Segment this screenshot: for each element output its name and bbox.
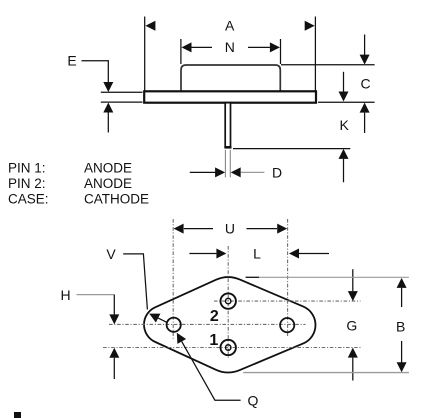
dim N stem right xyxy=(248,46,270,48)
svg-text:G: G xyxy=(346,318,357,334)
dim N extension line left xyxy=(180,39,182,64)
svg-text:H: H xyxy=(60,287,70,303)
svg-text:U: U xyxy=(225,220,235,236)
dim B stem lower xyxy=(401,341,403,363)
svg-text:E: E xyxy=(67,53,76,69)
dim C extension line bottom xyxy=(318,101,375,103)
dim D arrow right xyxy=(215,167,225,177)
dim N arrow left xyxy=(182,42,192,52)
case cap (side view) xyxy=(181,65,280,91)
svg-text:B: B xyxy=(396,318,405,334)
dim H stem below xyxy=(113,358,115,379)
dim D arrow left xyxy=(231,167,241,177)
centerline vertical package xyxy=(227,246,229,359)
dim B arrow down xyxy=(397,362,407,372)
dim C extension line top xyxy=(281,64,375,66)
pin 2 inner xyxy=(226,298,231,303)
pin 1 outer xyxy=(221,340,236,355)
dim E extension line top xyxy=(101,91,143,93)
dim A extension line left xyxy=(144,17,146,92)
dim Q leader xyxy=(182,341,241,400)
dim Q arrow xyxy=(177,333,186,344)
centerline vertical left hole xyxy=(172,219,174,339)
dim B extension top black part xyxy=(246,276,259,278)
dim B arrow up xyxy=(397,278,407,288)
dim C arrow down xyxy=(360,55,370,65)
dim B stem upper xyxy=(401,288,403,307)
dim N stem left xyxy=(192,46,213,48)
centerline vertical right hole xyxy=(287,219,289,337)
svg-text:2: 2 xyxy=(210,308,219,325)
svg-text:CATHODE: CATHODE xyxy=(84,191,149,206)
svg-text:V: V xyxy=(106,246,116,262)
svg-text:C: C xyxy=(361,75,371,91)
dim V leader xyxy=(123,254,147,310)
dim N extension line right xyxy=(280,39,282,64)
dim K arrow down xyxy=(339,92,349,102)
dim G arrow down xyxy=(348,291,358,301)
dim N arrow right xyxy=(270,42,280,52)
dim E arrow up xyxy=(103,103,113,113)
svg-text:K: K xyxy=(340,117,350,133)
svg-text:PIN 1:: PIN 1: xyxy=(8,161,46,176)
dim K stem below xyxy=(343,159,345,182)
dim U arrow right xyxy=(277,224,287,234)
svg-text:N: N xyxy=(225,39,235,55)
dim L arrow left-pointing xyxy=(289,249,299,259)
dim B extension bottom gray xyxy=(243,372,409,374)
svg-text:D: D xyxy=(272,165,282,181)
centerline horizontal pin2 xyxy=(214,300,361,302)
pin end extension line xyxy=(233,148,350,150)
centerline horizontal package xyxy=(109,323,306,325)
lead pin (side view) xyxy=(225,103,230,147)
dim G arrow up xyxy=(348,348,358,358)
svg-text:L: L xyxy=(253,245,261,261)
dim A arrow right xyxy=(305,21,315,31)
dim C stem above xyxy=(364,35,366,56)
dim B extension top gray xyxy=(259,276,409,278)
dim V arrow xyxy=(149,314,160,323)
pin 2 outer xyxy=(221,293,236,308)
dim D line left xyxy=(190,171,216,173)
dim A arrow left xyxy=(145,21,155,31)
dim D leader gray xyxy=(241,171,265,173)
svg-text:PIN 2:: PIN 2: xyxy=(8,176,46,191)
flange (side view) xyxy=(144,91,316,102)
dim U stem right xyxy=(247,228,278,230)
svg-text:ANODE: ANODE xyxy=(84,161,132,176)
svg-text:CASE:: CASE: xyxy=(8,191,49,206)
svg-text:A: A xyxy=(225,18,235,34)
centerline horizontal pin1 xyxy=(103,347,361,349)
dim V arrow tail xyxy=(158,318,167,322)
svg-text:ANODE: ANODE xyxy=(84,176,132,191)
dim A extension line right xyxy=(314,17,316,92)
flange outline (bottom view) xyxy=(144,277,315,372)
mounting hole right xyxy=(280,318,294,332)
dim E extension line bottom xyxy=(101,101,143,103)
dim L arrow right-pointing xyxy=(216,249,226,259)
dim L stem right xyxy=(299,253,329,255)
dim C stem below xyxy=(364,113,366,133)
dim K arrow up xyxy=(339,149,349,159)
dim U stem left xyxy=(184,228,213,230)
dim H arrow up xyxy=(109,348,119,358)
dim G stem below xyxy=(352,358,354,381)
dim H arrow down xyxy=(109,314,119,324)
dim U arrow left xyxy=(174,224,184,234)
dim E arrow down xyxy=(103,82,113,92)
svg-text:1: 1 xyxy=(209,332,218,349)
dim L stem left xyxy=(189,253,216,255)
pin width extension lines xyxy=(224,150,226,178)
dim H leader gray xyxy=(77,294,115,296)
dim E leader xyxy=(82,61,109,83)
dim C arrow up xyxy=(360,103,370,113)
dim E stem below xyxy=(107,113,109,133)
page corner mark xyxy=(14,412,21,418)
dim G stem above xyxy=(352,269,354,291)
pin 1 inner xyxy=(226,345,231,350)
mounting hole left xyxy=(167,318,181,332)
svg-text:Q: Q xyxy=(248,393,259,409)
dim K stem above xyxy=(343,72,345,92)
dim H stem above xyxy=(113,295,115,315)
